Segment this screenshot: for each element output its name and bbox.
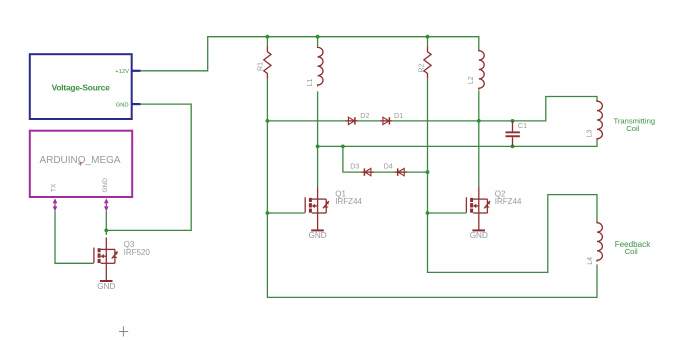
wire Q1 gate net down and across to L4 bottom — [267, 121, 597, 298]
ground — [311, 229, 324, 231]
pin TX — [54, 200, 56, 210]
svg-text:D4: D4 — [384, 162, 393, 171]
wire L2 bottom to Q2 drain — [478, 90, 480, 187]
svg-text:GND: GND — [116, 102, 129, 108]
transistor Q3 IRF520 — [94, 237, 118, 281]
svg-text:Coil: Coil — [626, 124, 639, 133]
node D4 / gate net B — [426, 170, 430, 174]
node top rail / R2 — [426, 35, 430, 39]
svg-text:R2: R2 — [418, 63, 425, 72]
inductor L4 — [597, 222, 602, 262]
wire R1 top stub — [266, 37, 268, 47]
wire arduino GND pin down to node — [105, 211, 107, 235]
wire Q2 gate stub — [428, 212, 467, 214]
diode D4 — [395, 171, 407, 173]
svg-text:TX: TX — [51, 183, 58, 192]
wire mid rail D2/D1 to C1 and L3 top — [267, 97, 597, 121]
node Q2 gate — [426, 211, 430, 215]
wire lower rail Q1 drain / C1 bottom / L3 bottom — [318, 140, 597, 146]
svg-text:D1: D1 — [394, 111, 403, 120]
origin marker (sheet) — [119, 326, 128, 336]
svg-text:GND: GND — [97, 282, 115, 291]
svg-text:C1: C1 — [518, 121, 527, 130]
svg-text:GND: GND — [308, 231, 326, 240]
wire R2 bottom through D4 node to Q2 gate node — [427, 79, 429, 213]
pin GND (VS1) — [131, 103, 140, 105]
node C1 top — [511, 119, 515, 123]
svg-text:L2: L2 — [468, 76, 475, 84]
diode D3 — [362, 171, 374, 173]
wire arduino TX pin to Q3 gate — [55, 211, 94, 263]
inductor L3 — [597, 100, 602, 140]
node Q1 gate — [266, 211, 270, 215]
arduino module U1 box — [30, 131, 132, 197]
ground — [472, 229, 485, 231]
node Q1 drain / lower rail — [316, 145, 320, 149]
wire L1 bottom to Q1 drain — [317, 91, 319, 187]
svg-text:IRFZ44: IRFZ44 — [495, 197, 522, 206]
resistor R2 — [424, 46, 431, 78]
wire Q1 gate stub — [267, 212, 305, 214]
svg-text:Coil: Coil — [625, 247, 638, 256]
svg-text:L4: L4 — [587, 257, 594, 265]
svg-text:IRF520: IRF520 — [124, 248, 151, 257]
node top rail / L1 — [316, 35, 320, 39]
pin GND (arduino) — [105, 200, 107, 210]
wire R1 bottom to mid rail — [266, 79, 268, 121]
wire L1 top stub — [317, 37, 319, 47]
wire voltage source GND to Q3 drain node — [106, 104, 191, 230]
svg-text:L1: L1 — [307, 79, 314, 87]
ground — [100, 280, 113, 282]
voltage source VS1 box — [30, 54, 132, 119]
node Q2 drain / mid rail — [477, 119, 481, 123]
svg-text:Voltage-Source: Voltage-Source — [52, 83, 111, 93]
transistor Q1 IRFZ44 — [305, 187, 329, 230]
inductor L1 — [318, 46, 323, 86]
diode D1 — [380, 120, 392, 122]
wire R2 top stub — [427, 37, 429, 47]
resistor R1 — [264, 46, 271, 78]
svg-text:GND: GND — [470, 231, 488, 240]
node gate net A / mid rail — [266, 119, 270, 123]
svg-text:L3: L3 — [586, 130, 593, 138]
svg-text:+12V: +12V — [115, 69, 129, 75]
wire Q2 gate node down and across to L4 top — [428, 195, 598, 273]
svg-text:D3: D3 — [350, 162, 359, 171]
node D3-D4 tap — [341, 145, 345, 149]
node C1 bottom — [511, 145, 515, 149]
inductor L2 — [479, 50, 484, 90]
node top rail / R1 — [266, 35, 270, 39]
svg-text:IRFZ44: IRFZ44 — [335, 197, 362, 206]
pin +12V — [131, 70, 140, 72]
diode D2 — [346, 120, 358, 122]
svg-text:GND: GND — [102, 178, 109, 193]
origin marker (part) — [78, 162, 82, 166]
svg-text:D2: D2 — [360, 111, 369, 120]
capacitor C1 — [512, 121, 514, 146]
transistor Q2 IRFZ44 — [466, 187, 490, 230]
wire +12V from source to top rail — [141, 37, 479, 71]
svg-text:R1: R1 — [257, 62, 264, 71]
wire D3/D4 branch — [343, 146, 428, 172]
node Q3 drain — [104, 229, 108, 233]
